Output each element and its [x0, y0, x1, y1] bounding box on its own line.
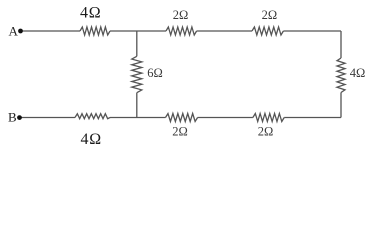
svg-text:2Ω: 2Ω — [172, 124, 188, 138]
svg-text:2Ω: 2Ω — [173, 8, 189, 22]
svg-text:4Ω: 4Ω — [350, 66, 366, 80]
svg-text:2Ω: 2Ω — [258, 124, 274, 138]
svg-text:4Ω: 4Ω — [80, 5, 102, 22]
svg-text:A: A — [9, 23, 19, 38]
svg-text:2Ω: 2Ω — [262, 8, 278, 22]
svg-text:6Ω: 6Ω — [147, 66, 163, 80]
svg-text:B: B — [8, 110, 17, 125]
svg-text:4Ω: 4Ω — [81, 131, 103, 148]
